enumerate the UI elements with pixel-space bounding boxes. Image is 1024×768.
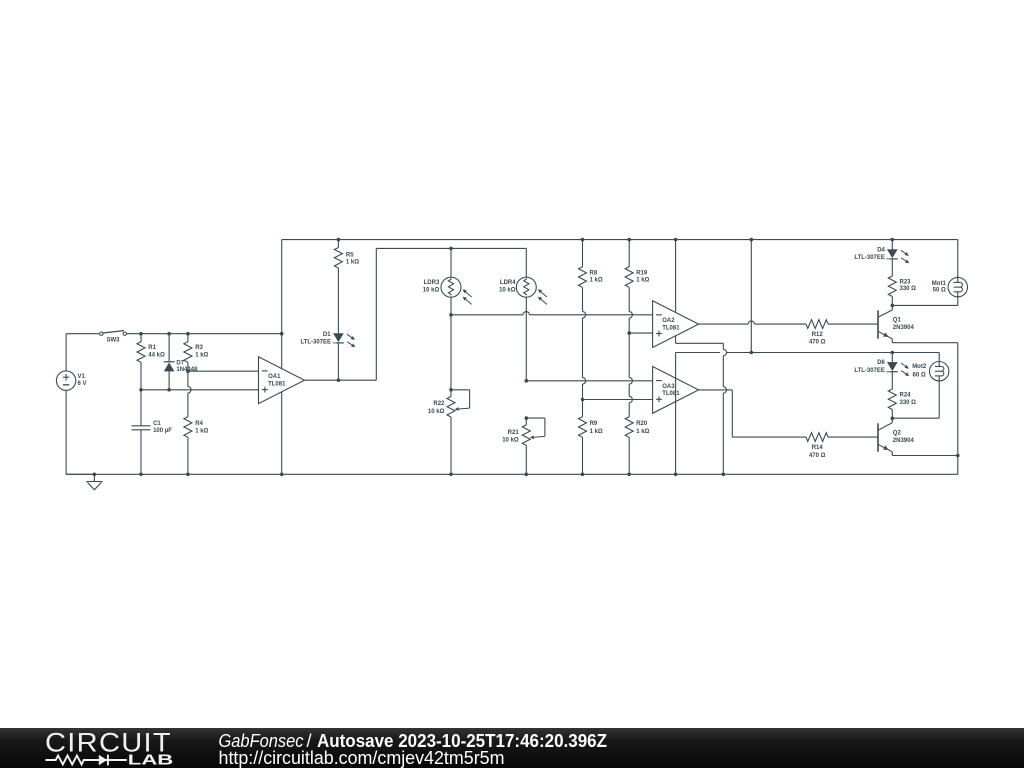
wire OA3 inverting input from LDR4 [526, 380, 652, 382]
wire OA3 non-inverting input from R9 [583, 399, 653, 401]
wire Mot2 bottom to junction [938, 381, 940, 418]
svg-text:Mot2: Mot2 [912, 364, 927, 370]
resistor R3 [187, 334, 189, 342]
svg-text:Mot1: Mot1 [932, 281, 947, 287]
resistor R14 [806, 433, 828, 442]
node wireB / LDR4 [525, 379, 529, 383]
main rail [282, 239, 958, 241]
wire OA2 non-inverting input [629, 332, 652, 334]
node R19 line / OA2 plus wire [627, 331, 631, 335]
svg-text:OA1: OA1 [268, 374, 281, 380]
svg-text:330 Ω: 330 Ω [900, 400, 917, 406]
svg-text:LTL-307EE: LTL-307EE [854, 255, 885, 261]
wire OA2 output with hop [699, 323, 749, 325]
node mid wire / D7 [167, 388, 171, 392]
svg-text:LAB: LAB [128, 753, 174, 768]
wire R8 to R9 with hops [582, 287, 584, 311]
svg-text:10 kΩ: 10 kΩ [499, 287, 516, 293]
svg-text:44 kΩ: 44 kΩ [148, 353, 165, 359]
node OA1 output / D1 [337, 378, 341, 382]
wire main rail to Mot1 [957, 240, 959, 278]
diode D7 [168, 334, 170, 362]
resistor R9 [579, 417, 587, 438]
svg-text:http://circuitlab.com/cmjev42t: http://circuitlab.com/cmjev42tm5r5m [219, 748, 505, 768]
node ground rail / OA2 V- drop [722, 473, 726, 477]
svg-text:1 kΩ: 1 kΩ [590, 277, 603, 283]
wire main rail drop to motor rail [750, 240, 752, 353]
node ground rail / C1 [139, 473, 143, 477]
svg-text:2N3904: 2N3904 [893, 438, 915, 444]
svg-text:470 Ω: 470 Ω [809, 453, 826, 459]
node R23 / Mot1 / Q1 collector [891, 304, 895, 308]
resistor R19 [628, 240, 630, 267]
node ground rail / R21 [525, 473, 529, 477]
op-amp OA1 [259, 357, 305, 404]
transistor Q1 2N3904 [877, 310, 879, 338]
resistor R1 [140, 334, 142, 342]
transistor Q2 2N3904 [877, 423, 879, 451]
svg-text:R24: R24 [900, 393, 912, 399]
svg-text:R20: R20 [636, 421, 648, 427]
wire feedback riser to rail 2 [375, 248, 377, 380]
node ground rail / OA1 V- [280, 473, 284, 477]
node wireA / LDR3 [449, 313, 453, 317]
CircuitLab logo resistor-diode glyph [45, 756, 126, 765]
svg-text:OA3: OA3 [662, 384, 675, 390]
svg-text:100 µF: 100 µF [153, 428, 172, 434]
node mid wire / R1 [139, 388, 143, 392]
resistor R23 [888, 276, 896, 297]
svg-text:C1: C1 [153, 421, 161, 427]
node ground rail / ground symbol [93, 473, 97, 477]
svg-text:10 kΩ: 10 kΩ [428, 409, 445, 415]
node stage-1 rail / D7 [167, 332, 171, 336]
svg-text:D4: D4 [877, 248, 885, 254]
wire OA2 inverting input from LDR3 [451, 314, 523, 316]
node ground rail / R4 [186, 473, 190, 477]
wire Mot1 bottom to junction [957, 297, 959, 306]
svg-text:R14: R14 [812, 445, 824, 451]
ground rail [66, 473, 958, 475]
wire R3 to R4 with hop over plus wire [187, 362, 189, 386]
wire motor rail to Mot2 [938, 353, 940, 362]
potentiometer R22 [449, 388, 453, 392]
svg-text:R19: R19 [636, 270, 648, 276]
node main rail / R8 [581, 238, 585, 242]
svg-text:R12: R12 [812, 332, 824, 338]
photoresistor LDR3 [450, 248, 452, 277]
svg-text:6 V: 6 V [78, 381, 87, 387]
node main rail / R5 [337, 238, 341, 242]
svg-text:LTL-307EE: LTL-307EE [300, 340, 331, 346]
svg-text:1 kΩ: 1 kΩ [195, 428, 208, 434]
resistor R8 [582, 240, 584, 267]
node R24 / Mot2 / Q2 collector [891, 416, 895, 420]
node ground rail / R22 [449, 473, 453, 477]
wire OA1 inverting input [188, 370, 259, 372]
voltage source V1 [56, 371, 75, 390]
node motor rail / main-rail drop [750, 351, 754, 355]
node R3-R4 divider to OA1 inverting input [186, 369, 190, 373]
wire OA3 output [699, 389, 733, 391]
svg-text:D1: D1 [323, 332, 331, 338]
svg-text:LTL-307EE: LTL-307EE [854, 368, 885, 374]
node ground rail / OA3 V- [674, 473, 678, 477]
svg-text:TL081: TL081 [662, 325, 680, 331]
potentiometer R21 [525, 416, 529, 420]
svg-text:R1: R1 [148, 345, 156, 351]
resistor R20 [625, 417, 633, 438]
svg-text:OA2: OA2 [662, 318, 675, 324]
svg-text:1 kΩ: 1 kΩ [636, 277, 649, 283]
node right bus / Q2 emitter [956, 454, 960, 458]
node main rail / OA2 V+ [674, 238, 678, 242]
svg-text:R8: R8 [590, 270, 598, 276]
svg-text:TL081: TL081 [268, 382, 286, 388]
wire R19 to R20 with hops [628, 287, 630, 311]
svg-text:LDR4: LDR4 [500, 280, 516, 286]
svg-text:LDR3: LDR3 [424, 280, 440, 286]
wire V1 top to stage-1 rail [65, 334, 67, 371]
resistor R5 [337, 240, 339, 248]
svg-text:R4: R4 [195, 421, 203, 427]
svg-text:R3: R3 [195, 345, 203, 351]
LED D4 [891, 240, 893, 250]
op-amp OA3 [653, 367, 699, 414]
svg-text:60 Ω: 60 Ω [913, 372, 926, 378]
switch SW3 [100, 332, 103, 335]
node main rail / D4 [891, 238, 895, 242]
node main rail / R19 [627, 238, 631, 242]
svg-text:330 Ω: 330 Ω [900, 286, 917, 292]
wire Q2 emitter to right bus [892, 455, 958, 457]
node stage-1 rail / R3 [186, 332, 190, 336]
resistor R24 [888, 389, 896, 410]
svg-text:Q2: Q2 [893, 431, 902, 437]
node ground rail / R20 [627, 473, 631, 477]
motor Mot1 [948, 277, 967, 296]
svg-text:1 kΩ: 1 kΩ [590, 429, 603, 435]
svg-text:Q1: Q1 [893, 317, 902, 323]
svg-text:R22: R22 [433, 401, 445, 407]
wire OA2 V+ from main rail [675, 240, 677, 313]
svg-text:10 kΩ: 10 kΩ [502, 437, 519, 443]
svg-text:470 Ω: 470 Ω [809, 339, 826, 345]
wire OA1 V- to ground rail [281, 392, 283, 474]
wire motor rail [676, 352, 721, 354]
node rail2 / LDR3 [449, 247, 453, 251]
resistor R12 [806, 320, 828, 329]
node stage-1 rail / riser [280, 332, 284, 336]
motor Mot2 [930, 362, 949, 381]
node R9 line / OA3 plus wire [581, 398, 585, 402]
svg-text:R5: R5 [346, 253, 354, 259]
svg-text:SW3: SW3 [106, 338, 120, 344]
svg-text:D7: D7 [176, 360, 184, 366]
node stage-1 rail / R1 [139, 332, 143, 336]
ground [93, 474, 95, 481]
LED D6 [891, 353, 893, 363]
svg-text:1 kΩ: 1 kΩ [636, 429, 649, 435]
wire motor rail to OA3 power to ground [675, 353, 677, 475]
wire riser stage1 to main rail and OA1 V+ [281, 240, 283, 369]
resistor R4 [187, 416, 189, 418]
svg-text:D6: D6 [877, 360, 885, 366]
node main rail / drop [750, 238, 754, 242]
wire V- drop with hops [722, 343, 724, 349]
svg-text:R21: R21 [508, 430, 520, 436]
svg-text:R9: R9 [590, 421, 598, 427]
svg-text:TL081: TL081 [662, 391, 680, 397]
svg-text:2N3904: 2N3904 [893, 325, 915, 331]
capacitor C1 [140, 390, 142, 426]
wire V1 bottom to ground rail [65, 390, 67, 474]
svg-text:R23: R23 [900, 280, 912, 286]
node ground rail / R9 [581, 473, 585, 477]
svg-text:10 kΩ: 10 kΩ [423, 287, 440, 293]
svg-text:V1: V1 [78, 374, 86, 380]
wire OA1 non-inverting input (R1/C1 node) [141, 389, 259, 391]
wire Q1 emitter to right bus [892, 342, 958, 344]
svg-text:1 kΩ: 1 kΩ [346, 260, 359, 266]
svg-text:1 kΩ: 1 kΩ [195, 353, 208, 359]
photoresistor LDR4 [525, 248, 527, 277]
op-amp OA2 [653, 301, 699, 348]
wire stage-1 rail [127, 333, 282, 335]
wire OA1 output [305, 379, 377, 381]
wire OA2 V- route [675, 336, 677, 344]
svg-text:50 Ω: 50 Ω [933, 288, 946, 294]
LED D1 [334, 334, 344, 342]
node motor rail / D6 [891, 351, 895, 355]
